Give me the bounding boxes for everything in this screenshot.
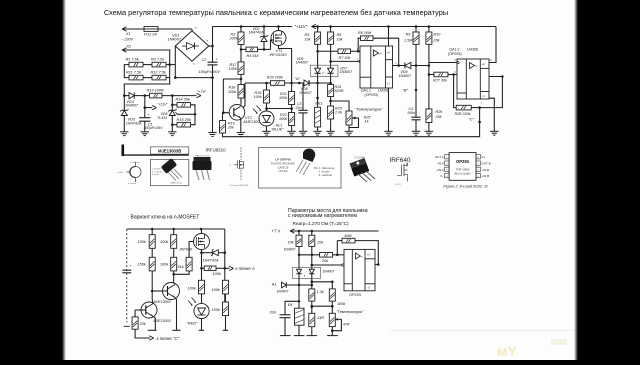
svg-text:R28 240k: R28 240k	[455, 112, 472, 116]
resistor 20k	[132, 317, 138, 329]
wire	[330, 74, 332, 85]
svg-text:G: G	[230, 165, 232, 167]
resistor 1.3k	[309, 289, 315, 301]
svg-text:100k: 100k	[279, 117, 288, 121]
svg-text:"BLUE": "BLUE"	[271, 128, 284, 132]
svg-text:100k: 100k	[228, 90, 237, 94]
wire VT2 emitter	[240, 118, 242, 133]
svg-text:100k: 100k	[279, 96, 288, 100]
svg-text:IPAK (TO-251): IPAK (TO-251)	[195, 154, 210, 157]
wire V- to ground	[489, 98, 494, 131]
wire	[331, 327, 333, 336]
svg-text:"B": "B"	[403, 87, 409, 92]
svg-text:100µFх16V: 100µFх16V	[143, 126, 163, 130]
svg-text:R27 30k: R27 30k	[433, 78, 448, 82]
resistor 24R	[309, 313, 315, 326]
resistor 51k	[186, 257, 192, 271]
wire	[336, 241, 338, 255]
svg-text:–IN A: –IN A	[436, 162, 443, 166]
resistor R4	[246, 47, 258, 52]
wire	[317, 44, 319, 68]
wire	[201, 229, 203, 234]
wire	[330, 119, 332, 131]
svg-text:1N4007: 1N4007	[399, 74, 413, 78]
wire right column	[224, 229, 226, 302]
svg-text:"A": "A"	[295, 76, 301, 81]
OP293 pinout figure	[445, 155, 450, 159]
svg-text:10М: 10М	[344, 234, 352, 238]
svg-text:"RED": "RED"	[187, 322, 198, 326]
wire	[135, 309, 146, 311]
wire	[278, 27, 280, 31]
svg-text:22n: 22n	[295, 106, 302, 110]
node +11V arrow	[145, 107, 152, 109]
wire	[151, 229, 153, 235]
svg-text:R15 20k: R15 20k	[177, 118, 192, 122]
svg-text:R13 100R: R13 100R	[147, 89, 165, 93]
junction node C	[478, 121, 481, 124]
svg-text:LM358: LM358	[467, 47, 478, 51]
wire	[309, 82, 331, 84]
resistor R10	[426, 32, 432, 44]
wire	[312, 281, 333, 283]
svg-text:OUT A: OUT A	[435, 155, 444, 159]
svg-text:1N4007: 1N4007	[125, 104, 139, 108]
wire	[124, 95, 129, 97]
wire DA1.2 plus input	[429, 62, 457, 64]
bridge internal diode	[182, 45, 187, 47]
wire	[175, 298, 177, 331]
resistor R23	[328, 106, 334, 119]
wire	[202, 267, 205, 269]
wire	[201, 319, 203, 331]
svg-text:820R: 820R	[335, 89, 344, 93]
wire output	[375, 264, 378, 266]
svg-text:"+11V": "+11V"	[157, 103, 168, 107]
capacitor (supply)	[122, 269, 131, 271]
capacitor C3	[302, 83, 304, 110]
svg-text:2. Collector: 2. Collector	[152, 170, 163, 173]
ground	[208, 132, 216, 134]
svg-text:(OP293): (OP293)	[448, 52, 462, 56]
wire	[135, 329, 150, 338]
resistor R24	[328, 85, 334, 97]
svg-text:–IN B: –IN B	[482, 168, 490, 172]
svg-text:33n: 33n	[270, 311, 276, 315]
wire	[124, 65, 169, 96]
svg-text:мY: мY	[497, 343, 517, 359]
wire node B	[415, 66, 417, 118]
resistor R15	[177, 122, 191, 127]
wire	[189, 242, 194, 258]
wire	[330, 44, 332, 68]
svg-text:IRFU9310: IRFU9310	[270, 53, 288, 57]
svg-text:LM358: LM358	[378, 89, 389, 93]
zener 1N4742A	[202, 252, 213, 254]
ground	[287, 130, 295, 132]
wire	[331, 282, 333, 289]
wire	[388, 27, 390, 47]
wire	[373, 38, 399, 65]
ground	[237, 132, 245, 134]
svg-text:1. Emitter: 1. Emitter	[152, 168, 161, 171]
svg-text:TOP VIEW: TOP VIEW	[456, 168, 470, 172]
svg-text:OUT B: OUT B	[482, 162, 491, 166]
wire	[177, 113, 195, 115]
thermal couple box VD6 VD7	[310, 65, 338, 76]
svg-text:20k: 20k	[321, 259, 329, 263]
svg-text:X2: X2	[126, 45, 133, 49]
wire	[212, 65, 214, 133]
ground	[326, 130, 334, 132]
svg-text:-U: -U	[482, 94, 485, 98]
svg-text:+IN A: +IN A	[436, 168, 443, 172]
wire 20k line	[299, 254, 320, 256]
diode VD4	[129, 93, 134, 99]
resistor R1	[129, 62, 143, 67]
svg-text:100k: 100k	[212, 288, 221, 292]
led HL1	[259, 111, 274, 126]
wire DA1.2 minus input	[448, 74, 457, 76]
wire	[351, 50, 361, 52]
wire	[291, 105, 293, 113]
svg-text:20k: 20k	[433, 39, 441, 43]
wire	[172, 104, 177, 106]
ground	[141, 131, 149, 133]
op-amp OP293 bottom	[344, 249, 375, 290]
svg-text:-U: -U	[367, 286, 370, 290]
svg-text:100k: 100k	[160, 263, 169, 267]
svg-text:IRFU9310: IRFU9310	[206, 148, 227, 153]
resistor R14	[177, 103, 191, 108]
wire	[223, 79, 241, 113]
resistor 150k a	[149, 235, 155, 249]
wire	[337, 240, 342, 242]
resistor 100k led col	[199, 280, 205, 294]
svg-text:R1 7.5k: R1 7.5k	[126, 58, 140, 62]
svg-text:2 base: 2 base	[117, 172, 124, 174]
wire	[266, 126, 268, 131]
svg-text:10k: 10k	[288, 241, 295, 245]
svg-text:1N4007: 1N4007	[299, 91, 313, 95]
svg-text:47R: 47R	[343, 322, 350, 326]
wire	[428, 63, 430, 109]
svg-text:к точке А: к точке А	[236, 266, 255, 271]
terminal bar	[307, 335, 318, 337]
svg-text:24R: 24R	[316, 316, 324, 320]
wire	[311, 274, 313, 289]
resistor R11	[129, 75, 143, 80]
svg-text:OP293: OP293	[349, 293, 361, 297]
svg-text:100k: 100k	[229, 67, 238, 71]
svg-text:3 emitter: 3 emitter	[128, 182, 136, 185]
capacitor C1	[139, 117, 150, 119]
wire	[330, 27, 332, 33]
led RED	[194, 303, 209, 318]
svg-text:1N4742A: 1N4742A	[203, 258, 219, 262]
svg-text:R26: R26	[436, 110, 444, 114]
fuse FU1	[144, 27, 158, 32]
wire	[358, 38, 360, 51]
thermal couple box	[292, 267, 320, 278]
svg-text:200k: 200k	[229, 37, 239, 41]
wire	[411, 65, 429, 67]
IRF640 mosfet symbol	[406, 163, 408, 167]
resistor 10M	[342, 238, 355, 243]
svg-text:-U: -U	[387, 82, 390, 86]
svg-text:1N4007: 1N4007	[296, 61, 310, 65]
wire	[311, 327, 313, 336]
svg-text:C2: C2	[202, 58, 208, 62]
wire	[298, 274, 300, 309]
wire	[298, 231, 300, 235]
ground	[425, 130, 433, 132]
shunt reference VD5 TL431	[171, 96, 173, 111]
resistor R26	[426, 109, 432, 123]
wire	[311, 231, 313, 235]
wire	[415, 27, 417, 33]
heater EK1	[317, 83, 319, 107]
junction	[168, 63, 171, 66]
resistor R27	[434, 72, 448, 77]
svg-text:150k: 150k	[138, 240, 147, 244]
svg-text:"+7V": "+7V"	[197, 89, 208, 94]
resistor R6	[328, 32, 334, 44]
wire R7 line	[318, 50, 338, 52]
svg-text:1N4007: 1N4007	[340, 70, 354, 74]
wire	[201, 253, 203, 269]
wire	[173, 229, 175, 235]
svg-text:MJE13003: MJE13003	[154, 319, 171, 323]
svg-text:+: +	[130, 264, 132, 268]
svg-text:1N4007: 1N4007	[277, 289, 289, 293]
svg-text:V+: V+	[482, 155, 486, 159]
ground	[299, 130, 307, 132]
op-amp DA1.1	[360, 46, 393, 88]
svg-text:1N4007: 1N4007	[168, 37, 182, 41]
wire	[201, 250, 203, 253]
wire	[143, 64, 152, 66]
svg-text:+IN B: +IN B	[482, 174, 490, 178]
svg-text:R11 7.5k: R11 7.5k	[126, 71, 142, 75]
resistor R12	[152, 75, 166, 80]
svg-text:1N4007: 1N4007	[322, 270, 334, 274]
svg-text:CASE 29-04: CASE 29-04	[170, 181, 182, 184]
svg-text:R4 51k: R4 51k	[247, 54, 260, 58]
svg-text:R12 7.5k: R12 7.5k	[151, 71, 167, 75]
svg-text:20k: 20k	[435, 115, 443, 119]
ground	[490, 130, 498, 132]
svg-text:P-Channel MOSFET: P-Channel MOSFET	[230, 185, 250, 187]
wire node A line	[245, 82, 270, 84]
svg-text:с нихромовым нагревателем: с нихромовым нагревателем	[288, 213, 357, 219]
resistor R3	[238, 32, 244, 45]
resistor 100k col right1	[223, 280, 229, 294]
wire	[124, 65, 129, 78]
svg-text:LP SUFFIX: LP SUFFIX	[275, 158, 290, 162]
wire	[152, 290, 167, 292]
wire	[333, 254, 344, 256]
svg-text:(TO-92): (TO-92)	[278, 169, 287, 173]
wire	[209, 45, 213, 47]
svg-text:100k: 100k	[254, 95, 263, 99]
dashed boundary	[126, 229, 128, 323]
wire	[201, 268, 203, 280]
svg-text:1N4742A: 1N4742A	[249, 30, 265, 34]
wire	[291, 83, 293, 92]
svg-text:1.3k: 1.3k	[317, 290, 325, 294]
svg-text:100k: 100k	[212, 308, 221, 312]
wire	[429, 74, 434, 76]
header underline	[122, 154, 189, 155]
resistor R8	[361, 36, 374, 41]
wire	[212, 27, 214, 63]
MJE13003B header box	[151, 147, 189, 154]
svg-text:V–: V–	[440, 174, 444, 178]
svg-text:R7 20k: R7 20k	[339, 56, 352, 60]
svg-text:X1: X1	[125, 32, 131, 36]
wire	[134, 95, 149, 97]
svg-text:к точке "С": к точке "С"	[157, 336, 180, 341]
resistor R28	[456, 105, 471, 110]
svg-text:100k: 100k	[160, 240, 169, 244]
ground	[384, 130, 392, 132]
transistor VT1 p-MOSFET	[271, 31, 286, 46]
svg-text:~ 230V: ~ 230V	[121, 38, 134, 42]
svg-text:TL431: TL431	[157, 116, 167, 120]
resistor R9	[413, 32, 419, 44]
svg-text:G D S: G D S	[395, 184, 401, 186]
svg-text:180k: 180k	[337, 302, 346, 306]
svg-text:∞: ∞	[361, 255, 363, 259]
divider bar	[122, 145, 125, 157]
resistor 10k left	[296, 235, 302, 246]
svg-text:А1: А1	[272, 282, 278, 287]
zener VD2	[263, 27, 265, 37]
wire	[285, 82, 304, 84]
resistor R13	[150, 93, 163, 98]
svg-text:EK1: EK1	[315, 101, 322, 105]
potentiometer 47R	[329, 313, 335, 326]
wire DA1.1 output	[393, 65, 405, 67]
TO-92 pinout circle	[130, 166, 141, 177]
wire	[222, 113, 225, 121]
svg-text:51k: 51k	[178, 265, 185, 269]
svg-text:10k: 10k	[317, 241, 324, 245]
wire	[266, 103, 268, 111]
wire	[166, 64, 175, 66]
svg-text:R8 10M: R8 10M	[358, 31, 372, 35]
capacitor C2	[208, 61, 218, 63]
wire	[143, 77, 152, 79]
resistor 100k b	[171, 257, 177, 271]
wire	[174, 271, 189, 274]
wire VT2 collector drop	[243, 83, 245, 108]
wire	[144, 121, 146, 131]
wire	[311, 301, 313, 313]
wire R28 feedback	[454, 75, 457, 108]
wire C net return	[223, 108, 480, 137]
resistor R5	[315, 32, 321, 44]
terminal bar	[327, 335, 338, 337]
svg-text:1 collector: 1 collector	[130, 161, 140, 164]
resistor R7	[338, 49, 351, 54]
node X2 input arrow	[122, 48, 127, 52]
svg-text:100k: 100k	[213, 272, 222, 276]
ground	[313, 130, 321, 132]
diode VD6	[315, 68, 321, 73]
wire	[153, 316, 156, 330]
svg-text:MJE13003: MJE13003	[154, 300, 171, 304]
wire	[317, 27, 319, 33]
wire	[267, 108, 292, 110]
wire	[415, 44, 417, 65]
svg-text:100µFх400V: 100µFх400V	[199, 70, 221, 74]
wire	[388, 88, 390, 131]
svg-text:(OP293): (OP293)	[365, 93, 379, 97]
wire	[172, 124, 177, 126]
arrow to point C	[149, 336, 154, 340]
diode VD8	[304, 80, 309, 86]
svg-text:20k: 20k	[227, 126, 235, 130]
wire feedback	[355, 241, 378, 265]
diode t2	[309, 269, 314, 273]
svg-text:Figure 2. 8-Lead SOIC_N: Figure 2. 8-Lead SOIC_N	[443, 183, 487, 188]
svg-text:R2 7.5k: R2 7.5k	[151, 58, 165, 62]
diode VD9	[404, 62, 406, 68]
wire	[240, 74, 242, 84]
svg-text:"C": "C"	[469, 116, 475, 121]
wire DA1.2 output	[480, 77, 503, 108]
resistor 100k a	[171, 235, 177, 249]
wire	[191, 105, 196, 125]
svg-text:Rнагр=1.270 Ом (Т=25°С): Rнагр=1.270 Ом (Т=25°С)	[293, 221, 349, 226]
transistor VT2	[229, 105, 245, 121]
node +7V arrow	[197, 93, 202, 97]
svg-text:DA1.2: DA1.2	[450, 47, 460, 51]
resistor R18	[238, 85, 244, 99]
svg-text:"Температура": "Температура"	[336, 310, 364, 314]
svg-text:IRF640: IRF640	[390, 157, 411, 164]
svg-text:"+11V": "+11V"	[295, 24, 308, 29]
svg-text:2.0k: 2.0k	[334, 111, 343, 115]
transistor MJE13003 upper	[163, 283, 180, 300]
ground	[168, 131, 176, 133]
wire	[144, 96, 146, 118]
wire +11V rail	[213, 26, 293, 28]
label +11V rail arrow	[312, 24, 317, 28]
zener VD3	[123, 96, 125, 111]
wire	[428, 27, 430, 33]
ground	[412, 130, 420, 132]
node to point A arrow	[225, 265, 227, 267]
svg-text:100n: 100n	[407, 111, 415, 115]
svg-text:R10: R10	[434, 32, 442, 36]
resistor 100k col right2	[223, 302, 229, 316]
wire	[158, 28, 192, 30]
svg-text:+7 V: +7 V	[272, 229, 281, 234]
svg-text:FU1 2A: FU1 2A	[144, 33, 157, 37]
transistor IRF640 n-MOSFET	[194, 234, 210, 250]
svg-text:1.5M: 1.5M	[404, 39, 413, 43]
transistor MJE13003 lower	[141, 302, 157, 318]
terminal bar	[294, 335, 305, 337]
resistor R22	[289, 113, 295, 126]
resistor 10k right	[309, 235, 315, 246]
svg-text:150k: 150k	[138, 263, 147, 267]
svg-text:MJE13003B: MJE13003B	[158, 149, 181, 154]
svg-text:"Температура": "Температура"	[355, 108, 383, 112]
